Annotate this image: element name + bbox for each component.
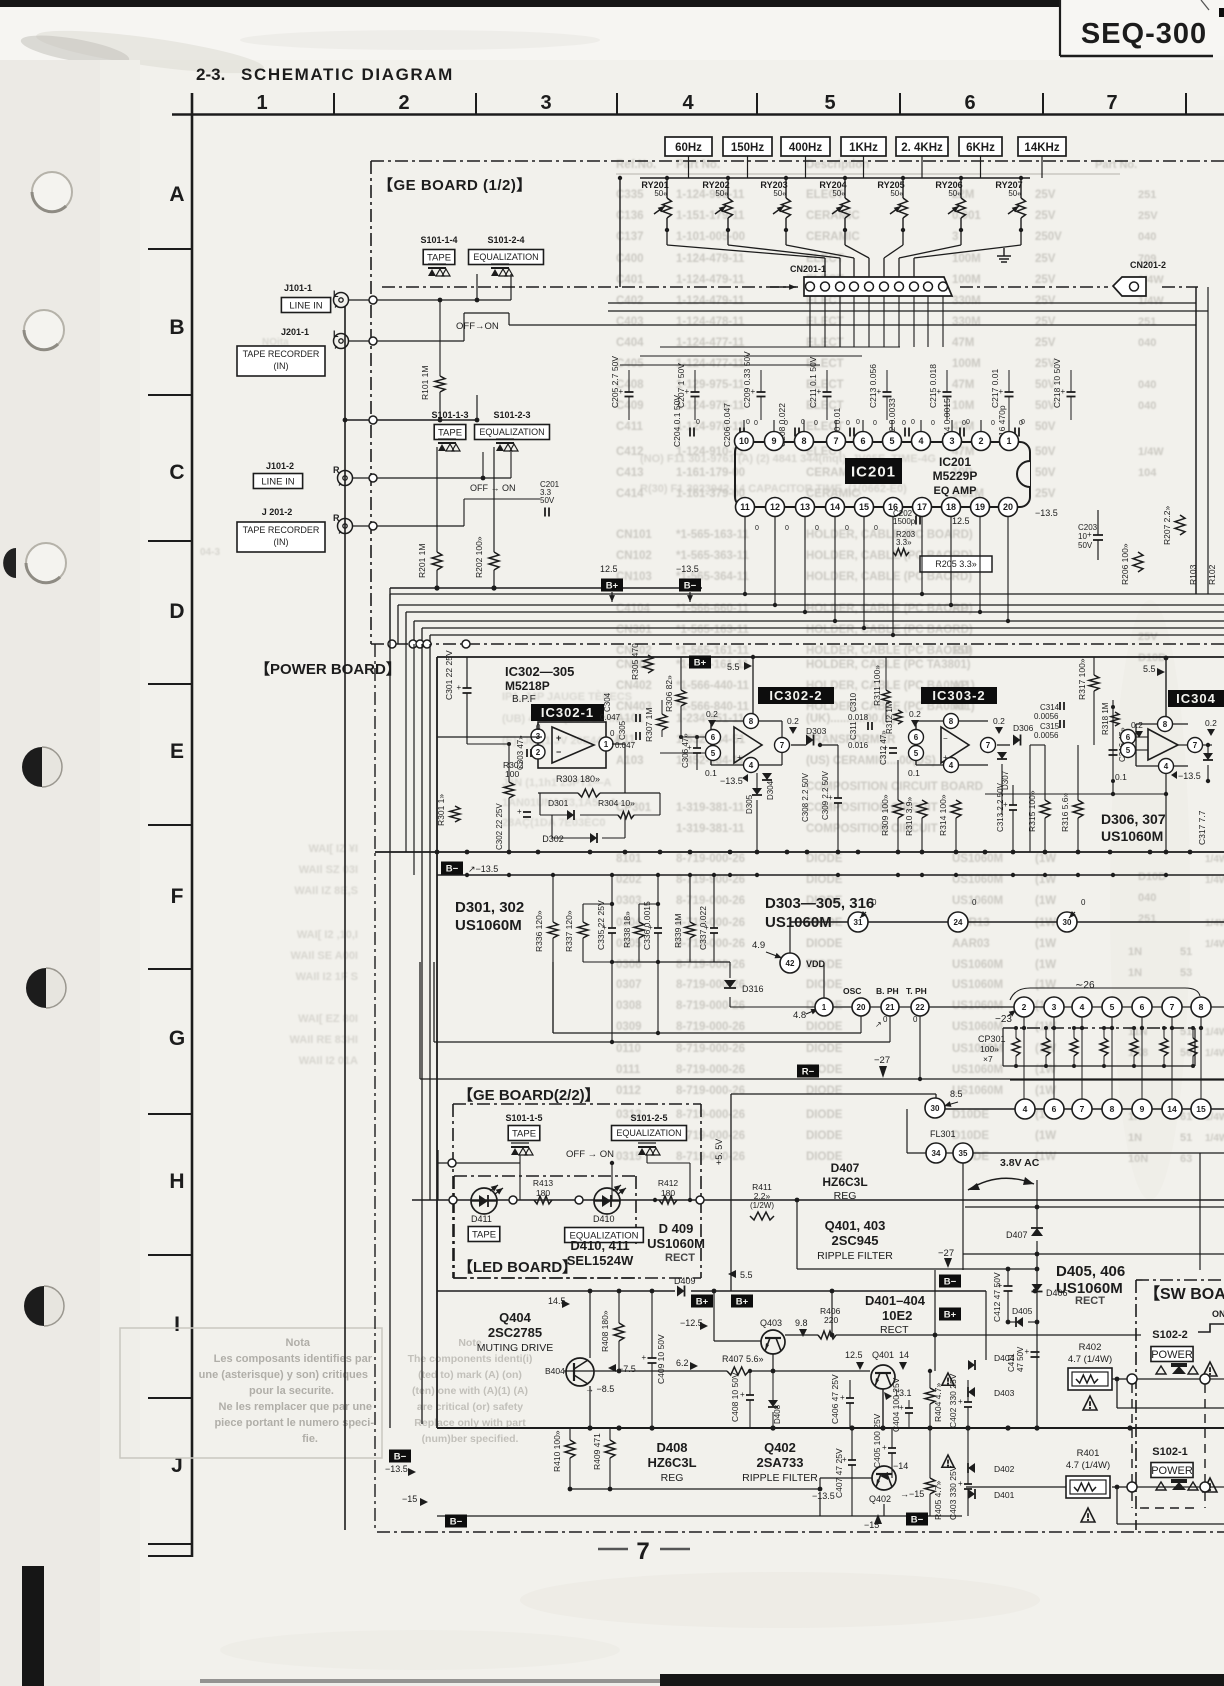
svg-text:50«: 50« [832, 189, 846, 198]
svg-text:5: 5 [711, 749, 716, 758]
svg-text:I: I [174, 1313, 180, 1336]
svg-text:20: 20 [1003, 502, 1013, 512]
svg-text:HOLDER, CABLE (PC BACRD): HOLDER, CABLE (PC BACRD) [806, 571, 972, 583]
svg-text:8-719-000-26: 8-719-000-26 [676, 1021, 745, 1033]
svg-text:D: D [169, 600, 184, 623]
svg-text:1N: 1N [1128, 1132, 1142, 1144]
svg-text:fie.: fie. [302, 1433, 318, 1445]
svg-text:C213 0.056: C213 0.056 [868, 364, 878, 408]
svg-text:R410 100»: R410 100» [552, 1430, 562, 1472]
svg-text:28AÇ(1DA 7E03ÈC0: 28AÇ(1DA 7E03ÈC0 [502, 816, 606, 829]
svg-text:1/4W: 1/4W [1205, 1133, 1224, 1144]
svg-text:RECT: RECT [665, 1252, 695, 1264]
svg-text:R409 471: R409 471 [592, 1433, 602, 1470]
svg-text:IC302-2: IC302-2 [769, 688, 822, 703]
svg-text:(ten) one with (A)(1) (A): (ten) one with (A)(1) (A) [412, 1385, 528, 1397]
svg-text:IC201: IC201 [939, 455, 971, 469]
svg-text:0: 0 [785, 525, 789, 532]
svg-text:0: 0 [845, 525, 849, 532]
svg-text:30: 30 [1063, 918, 1072, 927]
svg-text:R412: R412 [658, 1178, 679, 1188]
svg-text:8101: 8101 [616, 853, 642, 865]
svg-text:+5. 5V: +5. 5V [714, 1139, 724, 1165]
svg-text:COMPOSITION CIRCUIT: COMPOSITION CIRCUIT [806, 823, 938, 835]
svg-text:53: 53 [1180, 967, 1192, 979]
svg-text:0.1: 0.1 [908, 768, 920, 778]
svg-text:0: 0 [784, 420, 788, 427]
svg-text:COMPOSITION CIRCUIT BOARD: COMPOSITION CIRCUIT BOARD [806, 781, 983, 793]
svg-text:HOLDER, CABLE (PC BAORD): HOLDER, CABLE (PC BAORD) [806, 624, 973, 636]
svg-text:040: 040 [1138, 337, 1156, 349]
svg-text:IC302—305: IC302—305 [505, 664, 574, 679]
svg-text:The components identi(i): The components identi(i) [408, 1353, 533, 1365]
svg-text:∼26: ∼26 [1075, 980, 1095, 991]
svg-text:1N: 1N [1128, 967, 1142, 979]
svg-text:100M: 100M [952, 253, 981, 265]
svg-text:WAI[ I2 ,10,I: WAI[ I2 ,10,I [297, 929, 358, 941]
svg-text:R310 3.9»: R310 3.9» [904, 797, 914, 836]
svg-text:10: 10 [739, 436, 749, 446]
svg-text:(1W: (1W [1035, 917, 1056, 929]
svg-text:D306, 307: D306, 307 [1101, 811, 1166, 827]
svg-text:HZ6C3L: HZ6C3L [647, 1455, 696, 1470]
svg-text:R103: R103 [1188, 564, 1198, 585]
svg-text:7: 7 [1080, 1104, 1085, 1114]
svg-text:R413: R413 [533, 1178, 554, 1188]
svg-text:IC304: IC304 [1176, 691, 1216, 706]
svg-text:POWER: POWER [1151, 1349, 1193, 1361]
svg-text:M5229P: M5229P [933, 469, 978, 483]
svg-text:3: 3 [536, 732, 541, 741]
svg-text:220: 220 [824, 1315, 838, 1325]
svg-text:1-124-479-11: 1-124-479-11 [676, 295, 745, 307]
svg-text:0: 0 [746, 419, 750, 426]
svg-text:180: 180 [536, 1188, 550, 1198]
svg-text:VDD: VDD [806, 959, 826, 969]
svg-text:19: 19 [975, 502, 985, 512]
svg-text:+: + [937, 387, 942, 396]
svg-text:8-719-000-26: 8-719-000-26 [676, 938, 745, 950]
svg-text:9: 9 [1140, 1104, 1145, 1114]
svg-text:DIODE: DIODE [806, 1085, 843, 1097]
svg-text:0.0056: 0.0056 [1034, 712, 1059, 721]
svg-text:0: 0 [962, 420, 966, 427]
svg-text:POWER: POWER [1151, 1465, 1193, 1477]
svg-text:−27: −27 [874, 1055, 890, 1066]
svg-text:CN201-2: CN201-2 [1130, 260, 1166, 270]
svg-text:A: A [169, 183, 184, 206]
svg-text:+: + [556, 733, 561, 743]
svg-text:8-719-000-26: 8-719-000-26 [676, 1043, 745, 1055]
svg-text:25V: 25V [1035, 274, 1056, 286]
svg-text:51: 51 [1180, 1132, 1192, 1144]
svg-text:S102-2: S102-2 [1152, 1329, 1187, 1341]
svg-text:7: 7 [1193, 741, 1198, 750]
svg-text:+: + [958, 1479, 963, 1488]
svg-text:C218 10 50V: C218 10 50V [1052, 358, 1062, 408]
svg-text:3: 3 [952, 231, 958, 243]
svg-text:040: 040 [1138, 892, 1156, 904]
svg-text:D407: D407 [831, 1161, 860, 1175]
svg-text:C317 7.7: C317 7.7 [1197, 810, 1207, 845]
svg-text:8: 8 [1163, 720, 1168, 729]
svg-text:E: E [170, 740, 184, 763]
svg-text:D402: D402 [994, 1464, 1015, 1474]
svg-text:D401–404: D401–404 [865, 1293, 926, 1308]
svg-text:30: 30 [931, 1104, 940, 1113]
svg-text:DIODE: DIODE [806, 1021, 843, 1033]
svg-text:(1/2W): (1/2W) [750, 1201, 774, 1210]
svg-text:HZ6C3L: HZ6C3L [822, 1175, 867, 1189]
svg-text:+: + [740, 1390, 745, 1399]
svg-text:3.3»: 3.3» [896, 538, 912, 547]
svg-text:1/4W: 1/4W [1138, 446, 1164, 458]
svg-text:WAI[ EZ 80I: WAI[ EZ 80I [298, 1013, 358, 1025]
svg-text:WAIl IZ 8E,S: WAIl IZ 8E,S [294, 885, 358, 897]
svg-text:8-719-000-26: 8-719-000-26 [676, 1085, 745, 1097]
svg-text:D10DE: D10DE [952, 1109, 989, 1121]
svg-text:DIODE: DIODE [806, 1043, 843, 1055]
svg-text:8-719-000-26: 8-719-000-26 [676, 959, 745, 971]
svg-text:C403: C403 [616, 316, 644, 328]
svg-text:0.2: 0.2 [1205, 718, 1217, 728]
svg-text:330M: 330M [952, 295, 981, 307]
svg-text:OSC: OSC [843, 986, 861, 996]
svg-text:040: 040 [1138, 379, 1156, 391]
svg-text:400Hz: 400Hz [789, 142, 822, 154]
svg-text:【POWER BOARD】: 【POWER BOARD】 [255, 660, 401, 678]
svg-text:+: + [877, 387, 882, 396]
svg-text:−: − [556, 747, 561, 757]
svg-text:5: 5 [1110, 1002, 1115, 1012]
svg-text:50«: 50« [890, 189, 904, 198]
svg-text:0: 0 [972, 898, 977, 907]
svg-text:13: 13 [800, 502, 810, 512]
svg-text:C211 0.1 50V: C211 0.1 50V [808, 356, 818, 408]
svg-text:−27: −27 [938, 1248, 954, 1259]
svg-text:330M: 330M [952, 316, 981, 328]
svg-text:4: 4 [682, 92, 694, 114]
svg-text:−12.5: −12.5 [680, 1318, 703, 1328]
svg-text:7: 7 [1170, 1002, 1175, 1012]
svg-text:150Hz: 150Hz [731, 142, 764, 154]
svg-text:−15: −15 [402, 1494, 417, 1504]
svg-text:*1-565-363-11: *1-565-363-11 [676, 550, 749, 562]
svg-text:4: 4 [949, 761, 954, 770]
svg-text:WAIl RE 83HI: WAIl RE 83HI [290, 1034, 358, 1046]
svg-text:2: 2 [1022, 1002, 1027, 1012]
svg-text:50V: 50V [1078, 541, 1093, 550]
svg-text:9.8: 9.8 [795, 1318, 808, 1328]
svg-text:US1060M: US1060M [952, 895, 1003, 907]
svg-text:HOLDER, CABLE (PC BAORD): HOLDER, CABLE (PC BAORD) [806, 645, 973, 657]
svg-text:14KHz: 14KHz [1024, 142, 1059, 154]
svg-text:0: 0 [874, 525, 878, 532]
svg-text:→−15: →−15 [900, 1489, 924, 1499]
svg-text:DIODE: DIODE [806, 853, 843, 865]
svg-text:0202: 0202 [616, 874, 642, 886]
svg-text:R309 100»: R309 100» [880, 794, 890, 836]
svg-text:10E2: 10E2 [882, 1308, 912, 1323]
svg-text:J201-1: J201-1 [281, 327, 309, 337]
svg-text:11: 11 [740, 502, 750, 512]
svg-text:WAIl I2 01A: WAIl I2 01A [299, 1055, 358, 1067]
svg-text:S101-2-3: S101-2-3 [493, 410, 530, 420]
svg-text:−: − [737, 734, 742, 743]
svg-text:1-124-479-11: 1-124-479-11 [676, 274, 745, 286]
svg-text:B. PH: B. PH [876, 986, 899, 996]
svg-text:WAIl I2 1F S: WAIl I2 1F S [296, 971, 358, 983]
svg-text:US1060M: US1060M [952, 874, 1003, 886]
svg-text:17: 17 [917, 502, 927, 512]
svg-text:12.5: 12.5 [600, 564, 618, 574]
svg-text:24: 24 [954, 918, 963, 927]
svg-text:0.2: 0.2 [993, 716, 1005, 726]
svg-text:+: + [687, 743, 692, 752]
svg-text:R207 2.2»: R207 2.2» [1162, 506, 1172, 545]
svg-text:2: 2 [398, 92, 409, 114]
svg-text:+: + [751, 387, 756, 396]
svg-text:piece portant le numero speci-: piece portant le numero speci- [214, 1417, 374, 1429]
svg-text:8: 8 [1110, 1104, 1115, 1114]
svg-text:D407: D407 [1006, 1230, 1028, 1240]
svg-text:14: 14 [899, 1350, 909, 1360]
svg-text:51: 51 [1180, 946, 1192, 958]
svg-text:0.0056: 0.0056 [1034, 731, 1059, 740]
svg-text:Q403: Q403 [760, 1318, 782, 1328]
svg-text:R303 180»: R303 180» [556, 774, 600, 784]
svg-text:R401: R401 [1077, 1448, 1100, 1459]
svg-text:−23: −23 [995, 1014, 1012, 1025]
svg-text:TAPE RECORDER: TAPE RECORDER [243, 349, 320, 359]
svg-text:are critical (or) safety: are critical (or) safety [417, 1401, 523, 1413]
svg-text:Nota: Nota [286, 1337, 311, 1349]
svg-text:S101-1-3: S101-1-3 [431, 410, 468, 420]
svg-text:WAIl SZ 03I: WAIl SZ 03I [299, 864, 358, 876]
svg-text:0306: 0306 [616, 959, 642, 971]
svg-text:1: 1 [604, 740, 609, 749]
svg-text:C308 2.2 50V: C308 2.2 50V [801, 772, 810, 822]
svg-text:25V: 25V [1035, 488, 1056, 500]
svg-text:100M: 100M [952, 274, 981, 286]
svg-text:+: + [817, 387, 822, 396]
svg-text:B−: B− [944, 1277, 957, 1288]
svg-text:R307 1M: R307 1M [644, 708, 654, 743]
svg-text:B−: B− [684, 581, 697, 592]
svg-text:47M: 47M [952, 379, 974, 391]
svg-text:C305: C305 [618, 720, 627, 740]
svg-text:C404: C404 [616, 337, 644, 349]
svg-text:1-319-381-11: 1-319-381-11 [676, 823, 745, 835]
svg-text:6: 6 [860, 436, 865, 446]
svg-text:D302: D302 [542, 834, 564, 844]
svg-text:D10DE: D10DE [952, 1130, 989, 1142]
svg-text:+: + [998, 1281, 1003, 1290]
svg-text:18: 18 [946, 502, 956, 512]
svg-text:+: + [840, 1393, 845, 1402]
svg-text:8-719-000-26: 8-719-000-26 [676, 895, 745, 907]
svg-text:+: + [737, 753, 742, 762]
svg-text:R338 18»: R338 18» [622, 911, 632, 948]
svg-text:T. PH: T. PH [906, 986, 927, 996]
svg-text:R301 1»: R301 1» [436, 794, 446, 826]
svg-text:8: 8 [949, 717, 954, 726]
svg-text:0: 0 [696, 419, 700, 426]
svg-text:1-124-479-11: 1-124-479-11 [676, 253, 745, 265]
svg-text:0: 0 [911, 419, 915, 426]
svg-text:B+: B+ [694, 658, 707, 669]
svg-text:8-719-900-26: 8-719-900-26 [676, 874, 745, 886]
svg-text:+: + [685, 387, 690, 396]
svg-text:B−: B− [394, 1452, 407, 1463]
svg-text:C406 47 25V: C406 47 25V [830, 1374, 840, 1424]
svg-text:【LED BOARD】: 【LED BOARD】 [458, 1258, 577, 1276]
svg-text:0.2: 0.2 [1131, 720, 1143, 730]
svg-text:CERAMIC: CERAMIC [806, 231, 860, 243]
svg-text:+: + [704, 923, 709, 932]
svg-text:8-719-000-26: 8-719-000-26 [676, 1151, 745, 1163]
svg-text:(1W: (1W [1035, 853, 1056, 865]
svg-text:B.P.F: B.P.F [512, 694, 536, 705]
svg-text:−13.5: −13.5 [812, 1491, 835, 1501]
svg-text:25V: 25V [1138, 631, 1158, 643]
svg-text:1500p: 1500p [893, 517, 916, 526]
svg-text:REG: REG [661, 1472, 684, 1484]
svg-text:1/4W: 1/4W [1205, 854, 1224, 865]
svg-text:R337 120»: R337 120» [564, 910, 574, 952]
svg-text:1-319-381-11: 1-319-381-11 [676, 802, 745, 814]
svg-text:1-151-179-11: 1-151-179-11 [676, 210, 745, 222]
svg-text:5.5: 5.5 [1143, 664, 1156, 674]
svg-text:3: 3 [540, 92, 551, 114]
svg-text:0.2: 0.2 [706, 709, 718, 719]
svg-text:0110: 0110 [616, 1043, 641, 1055]
svg-text:B+: B+ [944, 1310, 957, 1321]
svg-text:R101 1M: R101 1M [420, 366, 430, 401]
svg-text:R339 1M: R339 1M [673, 914, 683, 949]
svg-text:25V: 25V [1035, 189, 1056, 201]
svg-text:34: 34 [932, 1149, 941, 1158]
svg-text:Q401, 403: Q401, 403 [825, 1218, 886, 1233]
svg-text:+: + [1003, 800, 1008, 809]
svg-text:×7: ×7 [983, 1054, 993, 1064]
svg-text:0111: 0111 [616, 1064, 641, 1076]
svg-text:7: 7 [1106, 92, 1117, 114]
svg-text:C215 0.018: C215 0.018 [928, 364, 938, 408]
svg-text:1-124-975-11: 1-124-975-11 [676, 400, 745, 412]
svg-text:2: 2 [536, 748, 541, 757]
svg-text:US1060M: US1060M [647, 1236, 705, 1251]
svg-text:D304: D304 [766, 780, 775, 800]
svg-text:25V: 25V [1035, 337, 1056, 349]
svg-text:21: 21 [886, 1003, 895, 1012]
svg-text:D306: D306 [1013, 723, 1034, 733]
svg-text:0: 0 [913, 1015, 918, 1024]
svg-text:14: 14 [830, 502, 840, 512]
svg-text:+: + [882, 1443, 887, 1452]
svg-text:D406: D406 [1046, 1288, 1068, 1298]
svg-text:D404: D404 [994, 1353, 1015, 1363]
svg-text:100: 100 [505, 769, 519, 779]
svg-text:0.047: 0.047 [615, 741, 636, 750]
svg-text:US1060M: US1060M [952, 853, 1003, 865]
svg-text:B−: B− [450, 1517, 463, 1528]
svg-text:12.5: 12.5 [845, 1350, 863, 1360]
svg-text:1-124-478-11: 1-124-478-11 [676, 316, 745, 328]
svg-text:US1060M: US1060M [952, 1064, 1003, 1076]
svg-text:−13.5: −13.5 [720, 776, 743, 786]
svg-text:10M: 10M [952, 400, 974, 412]
svg-text:0.047: 0.047 [600, 713, 621, 722]
svg-text:150: 150 [952, 645, 971, 657]
svg-text:OFF→ON: OFF→ON [456, 321, 499, 332]
svg-text:1/4W: 1/4W [1205, 875, 1224, 886]
svg-text:8-719-000-26: 8-719-000-26 [676, 1000, 745, 1012]
svg-text:(1W: (1W [1035, 1085, 1056, 1097]
svg-text:S101-1-4: S101-1-4 [420, 235, 457, 245]
svg-text:+: + [1061, 387, 1066, 396]
svg-text:0.1: 0.1 [1115, 772, 1127, 782]
svg-text:CN301: CN301 [616, 624, 652, 636]
svg-text:14: 14 [1167, 1104, 1177, 1114]
svg-text:CN101: CN101 [616, 529, 652, 541]
svg-text:G: G [169, 1027, 185, 1050]
svg-text:CN201-1: CN201-1 [790, 264, 826, 274]
svg-text:D408: D408 [773, 1404, 782, 1424]
svg-text:Q402: Q402 [869, 1494, 891, 1504]
svg-text:5: 5 [889, 436, 894, 446]
svg-text:ON: ON [1212, 1309, 1224, 1319]
svg-text:D409: D409 [674, 1276, 696, 1286]
svg-text:3: 3 [1052, 1002, 1057, 1012]
svg-text:+: + [999, 387, 1004, 396]
svg-text:B−: B− [446, 864, 459, 875]
svg-text:1KHz: 1KHz [849, 142, 878, 154]
svg-text:B: B [169, 316, 184, 339]
svg-text:180: 180 [661, 1188, 675, 1198]
svg-text:C409: C409 [616, 400, 644, 412]
svg-text:50V: 50V [1035, 446, 1056, 458]
svg-text:04-3: 04-3 [200, 547, 220, 558]
svg-text:D403: D403 [994, 1388, 1015, 1398]
svg-text:2: 2 [978, 436, 983, 446]
svg-text:M5218P: M5218P [505, 679, 550, 693]
svg-text:EQUALIZATION: EQUALIZATION [479, 427, 544, 437]
svg-text:F: F [171, 885, 184, 908]
svg-text:040: 040 [1138, 400, 1156, 412]
svg-text:C402: C402 [616, 295, 644, 307]
svg-text:B+: B+ [606, 581, 619, 592]
svg-text:50«: 50« [1008, 189, 1022, 198]
svg-text:IC303-2: IC303-2 [932, 688, 985, 703]
svg-text:R318 1M: R318 1M [1101, 702, 1110, 735]
svg-text:8.5: 8.5 [950, 1089, 963, 1099]
svg-text:B+: B+ [696, 1297, 709, 1308]
svg-text:5: 5 [1126, 746, 1131, 755]
svg-text:CN102: CN102 [616, 550, 652, 562]
svg-text:5: 5 [914, 749, 919, 758]
svg-text:6: 6 [711, 733, 716, 742]
svg-text:【GE BOARD (1/2)】: 【GE BOARD (1/2)】 [378, 176, 532, 194]
svg-text:7: 7 [986, 741, 991, 750]
svg-text:5.5: 5.5 [740, 1270, 753, 1280]
svg-text:C409 10 50V: C409 10 50V [656, 1334, 666, 1384]
svg-text:(1W: (1W [1035, 979, 1056, 991]
svg-text:D 409: D 409 [659, 1221, 694, 1236]
svg-text:IC201: IC201 [851, 463, 896, 480]
svg-text:−14: −14 [893, 1461, 908, 1471]
svg-text:+: + [958, 1397, 963, 1406]
